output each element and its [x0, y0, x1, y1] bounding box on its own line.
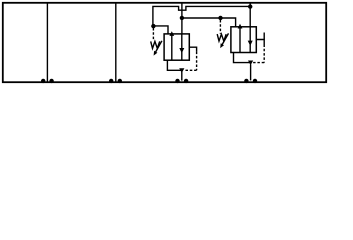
node D1 [151, 24, 155, 28]
port dots at divider 1 [41, 79, 45, 83]
riser D2 into valve body V1 [181, 19, 183, 34]
pilot dashed return to drain 1 [185, 69, 197, 71]
flow path arrow up (V1) [171, 35, 173, 60]
adjustment arrow A2 [222, 33, 229, 45]
drain link V1 [167, 60, 181, 70]
riser V2b from top bus through node [249, 4, 251, 27]
station divider 2 [115, 4, 117, 83]
wire D1 to valve body V1 inlet [153, 26, 168, 34]
flow path arrow down (V1) [181, 34, 183, 60]
flow path arrow up (V2) [239, 28, 241, 53]
pilot dashed drop V2 [263, 45, 265, 63]
pilot stub right of V2 [256, 40, 264, 45]
drain arrow V2 [248, 61, 253, 66]
drain port dots V1 [175, 79, 179, 83]
drain link V2 [234, 53, 251, 63]
adjustment arrow A1 [155, 41, 162, 53]
station divider 1 [46, 4, 48, 83]
drain arrow V1 [179, 68, 184, 73]
pilot line P2 (dashed) [219, 20, 221, 34]
valve body V2 [231, 27, 256, 53]
node D2 [180, 16, 184, 20]
interstage wire to valve body V2 [182, 18, 236, 27]
pilot dashed return to drain 2 [253, 62, 264, 64]
enclosure border [3, 3, 326, 82]
pilot stub right of V1 [189, 47, 196, 51]
flow path arrow down (V2) [249, 27, 251, 53]
pilot stub right of V1 dashed drop [196, 52, 198, 71]
valve body V1 [164, 34, 189, 60]
pilot line P1 (dashed) [152, 28, 154, 41]
port dots at divider 2 [109, 79, 113, 83]
node N3 [248, 4, 252, 8]
spring S1 [151, 41, 160, 48]
main riser V1b from top bus [181, 4, 183, 18]
pilot stub upper branch V2 [263, 33, 265, 40]
node D1' [218, 16, 222, 20]
drain port dots V2 [244, 79, 248, 83]
wire W1 with crossover hop [153, 6, 250, 26]
spring S2 [217, 34, 226, 41]
